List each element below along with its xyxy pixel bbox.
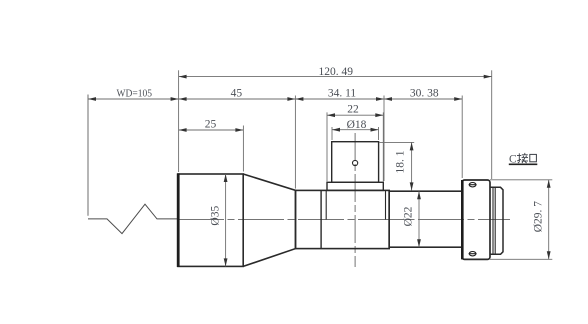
thread relief line 1 (492, 187, 494, 254)
flange face (heavy) (461, 180, 464, 259)
svg-text:45: 45 (231, 87, 243, 99)
Ø22 barrel (389, 191, 462, 247)
dim 45/34.11 extension (294, 96, 296, 189)
dim 22 arrows (327, 113, 383, 117)
body ring line C (385, 190, 387, 219)
mid body (296, 190, 390, 248)
optical axis centerline (178, 218, 510, 220)
body junction line (388, 190, 390, 248)
svg-text:Ø35: Ø35 (210, 206, 222, 226)
dim 120.49 extension left (178, 70, 180, 172)
dim Ø22 line (418, 191, 420, 247)
svg-text:30. 38: 30. 38 (410, 87, 439, 99)
svg-text:WD=105: WD=105 (117, 87, 153, 99)
dim 45 arrows (179, 97, 296, 101)
dim WD=105 arrows (88, 97, 179, 101)
body ring line A (320, 190, 322, 248)
svg-text:34. 11: 34. 11 (328, 87, 357, 99)
dim Ø18 extension right (378, 127, 380, 140)
dim 120.49 arrows (179, 75, 492, 79)
dim Ø29.7 arrows (547, 180, 551, 259)
dim WD=105 line (88, 98, 179, 100)
svg-text:Ø18: Ø18 (347, 119, 367, 131)
svg-text:Ø29. 7: Ø29. 7 (532, 201, 544, 233)
thread relief line 2 (494, 187, 496, 254)
dim Ø22 arrows (417, 191, 421, 247)
object plane line (87, 95, 89, 216)
svg-text:120. 49: 120. 49 (319, 66, 354, 78)
dim Ø35 line (225, 174, 227, 266)
dim 120.49 extension right (491, 70, 493, 179)
dim Ø29.7 extension top (490, 179, 552, 181)
dim Ø18 arrows (332, 128, 379, 132)
dim 25 line (179, 129, 244, 131)
dim 30.38 line (384, 98, 462, 100)
dim 18.1 arrows (410, 142, 414, 190)
front face (heavy) (177, 173, 180, 267)
svg-text:25: 25 (205, 118, 217, 130)
C-mount flange (462, 180, 490, 259)
dim Ø18 extension left (331, 127, 333, 140)
body ring line B (325, 190, 327, 219)
dim Ø29.7 extension bottom (490, 258, 552, 260)
dim 30.38 arrows (384, 97, 462, 101)
dim 22 extension left (326, 112, 328, 181)
dim 18.1 line (411, 142, 413, 190)
label C-mount underline (509, 163, 538, 165)
screw bottom (469, 252, 477, 256)
top box port (332, 142, 379, 183)
front barrel (178, 174, 243, 266)
dim 34.11 line (295, 98, 384, 100)
dim 25 arrows (179, 128, 244, 132)
taper cone (243, 174, 295, 266)
thread barrel (490, 187, 503, 254)
label C-mount glyph 口 (530, 154, 537, 161)
dim 34.11/30.38 extension (383, 96, 385, 182)
dim 120.49 line (179, 76, 492, 78)
centerline break (zigzag) (88, 204, 178, 233)
dim 45 line (179, 98, 296, 100)
svg-text:22: 22 (347, 103, 359, 115)
label C-mount glyph 接 (517, 153, 528, 163)
dim Ø18 line (332, 129, 379, 131)
dim Ø35 arrows (224, 174, 228, 266)
screw top (469, 183, 477, 187)
dim 22 line (327, 114, 383, 116)
flange plate (327, 182, 383, 190)
dim 30.38 extension right (461, 96, 463, 179)
svg-text:18. 1: 18. 1 (395, 150, 407, 173)
port center hole (353, 160, 358, 165)
svg-text:Ø22: Ø22 (403, 206, 415, 226)
vertical centerline (354, 133, 356, 267)
dim Ø29.7 line (548, 180, 550, 259)
dim 18.1 extension (380, 141, 415, 143)
dim 34.11 arrows (295, 97, 384, 101)
dim 22 extension right (382, 112, 384, 181)
dim 25 extension right (242, 126, 244, 172)
